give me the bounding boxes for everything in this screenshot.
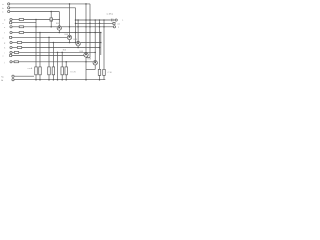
wire TR4 collector <box>85 4 87 53</box>
wire e2 right <box>80 42 100 44</box>
transistor TR2 <box>67 35 71 39</box>
terminal Pf <box>10 31 12 33</box>
wire B corner down <box>75 8 77 43</box>
wire b1 b <box>24 26 58 28</box>
junction r52 v94 <box>94 52 96 54</box>
junction v90 e1 <box>89 32 91 34</box>
wire R98 dn <box>99 75 101 79</box>
terminal out3 <box>113 26 115 28</box>
terminal Pa <box>8 3 10 5</box>
resistor Rf <box>65 67 68 75</box>
terminal Pb <box>8 7 10 9</box>
junction col49 e3 <box>48 47 50 49</box>
junction v86 bus <box>85 79 87 81</box>
terminal D8 <box>10 36 12 38</box>
wire TR5 emitter h <box>86 69 95 71</box>
wire TR2 emitter <box>69 40 71 43</box>
svg-text:u: u <box>2 56 3 58</box>
resistor Rd <box>52 67 55 75</box>
svg-text:K 170: K 170 <box>71 71 77 73</box>
resistor R6 <box>19 32 23 34</box>
wire e1 b <box>24 32 101 34</box>
junction out2 90 <box>89 23 91 25</box>
terminal Pe <box>10 26 12 28</box>
junction v90 out1 <box>89 19 91 21</box>
wire e2 b <box>22 42 76 44</box>
wire out1 c <box>113 19 115 21</box>
wire colRd up <box>52 43 54 67</box>
wire out1 <box>76 19 111 21</box>
terminal Pk <box>12 75 14 77</box>
wire colRb dn <box>39 75 41 80</box>
terminal Pi <box>10 51 12 53</box>
wire colRd dn <box>52 75 54 80</box>
junction out3 79 <box>77 26 79 28</box>
resistor Ra <box>35 67 38 75</box>
terminal D5 <box>10 22 12 24</box>
resistor RV1 <box>50 18 53 21</box>
wire v103 <box>103 20 105 69</box>
junction TR1e e1 <box>59 32 61 34</box>
junction out3 103 <box>103 26 105 28</box>
terminal Ph <box>10 46 12 48</box>
wire colRc up <box>48 37 50 67</box>
wire b1 right <box>61 26 113 28</box>
wire TR1 emitter <box>58 30 60 32</box>
resistor Re <box>61 67 64 75</box>
terminal out1 <box>115 19 117 21</box>
wire v57 jumper <box>57 52 59 79</box>
wire row4 b <box>24 19 50 21</box>
wire v100 <box>100 33 102 56</box>
wire C corner down <box>58 12 60 26</box>
wire r52 b <box>19 51 96 53</box>
wire colRb up <box>39 33 41 67</box>
resistor R8 <box>17 47 21 49</box>
junction v51 b1 <box>50 26 52 28</box>
resistor R10 <box>14 61 18 63</box>
transistor TR4 <box>84 53 88 57</box>
junction col53 e2 <box>53 42 55 44</box>
resistor R7 <box>17 42 21 44</box>
wire R103 dn <box>103 75 105 79</box>
wire TR5 collector <box>94 20 96 61</box>
terminal Pg <box>10 41 12 43</box>
wire TR3 emitter <box>77 46 79 48</box>
junction v98 out1 <box>99 19 101 21</box>
junction v57 r52 <box>57 52 59 54</box>
wire e1 a <box>12 32 19 34</box>
svg-text:u: u <box>2 23 3 25</box>
wire row C <box>10 11 60 13</box>
wire r52 a <box>12 51 14 53</box>
junction e1 end <box>100 32 102 34</box>
junction row4 C <box>59 19 60 20</box>
wire TR2 collector <box>69 4 71 35</box>
junction TR2e e2 <box>69 42 71 44</box>
capacitor C1 <box>110 19 112 22</box>
wire v98 <box>99 20 101 69</box>
wire e2 a <box>12 42 17 44</box>
junction bus Ra <box>35 79 37 81</box>
junction out1 TR3 <box>77 19 79 21</box>
wire colRf up <box>65 62 67 67</box>
junction bus Rd <box>53 79 55 81</box>
junction col66 r61 <box>65 61 67 63</box>
junction A TR2 <box>69 3 71 5</box>
junction bus Re <box>61 79 63 81</box>
junction A TR4 <box>85 3 87 5</box>
junction row4 v36 <box>35 19 37 21</box>
transistor TR3 <box>76 42 80 46</box>
junction col49 b2 <box>48 37 50 39</box>
junction out2 75 <box>75 23 77 25</box>
wire v36 upper <box>35 20 37 27</box>
wire colRa up <box>35 27 37 67</box>
wire out2 <box>76 22 113 24</box>
junction e3 end <box>99 47 101 49</box>
resistor R5 <box>19 26 23 28</box>
junction e2 end <box>100 42 102 44</box>
svg-text:ic: ic <box>2 12 3 14</box>
terminal D12 <box>10 54 12 56</box>
terminal Pc <box>8 10 10 12</box>
wire gnd bus <box>14 79 105 81</box>
junction v98 out3 <box>99 26 101 28</box>
junction v95 e1 <box>94 32 96 34</box>
svg-text:a mA: a mA <box>28 67 33 70</box>
wire row4 c <box>53 19 60 21</box>
junction v75 out1 <box>75 19 77 21</box>
wire A corner v90 <box>89 4 91 58</box>
svg-text:u: u <box>2 38 3 40</box>
wire b4 <box>12 55 84 57</box>
terminal Pj <box>10 61 12 63</box>
terminal Pl <box>12 79 14 81</box>
wire e4 h <box>86 57 90 59</box>
junction out1 TR5c <box>94 19 96 21</box>
wire row5 <box>12 22 36 24</box>
wire b2 <box>12 36 68 38</box>
junction v57 bus <box>57 79 59 81</box>
terminal D out2 <box>113 22 115 24</box>
transistor TR5 <box>93 61 97 65</box>
wire TR5 emitter v <box>94 65 96 70</box>
junction v90 out3 <box>89 26 91 28</box>
svg-text:am: am <box>117 24 120 26</box>
terminal Pd <box>10 18 12 20</box>
junction v86 out1 <box>85 19 87 21</box>
wire colRe dn <box>61 75 63 80</box>
resistor R103 <box>103 69 106 75</box>
junction bus Rb <box>39 79 41 81</box>
wire row k <box>14 75 34 77</box>
junction v75 e2 <box>75 42 77 44</box>
resistor Rb <box>39 67 42 75</box>
wire colRa dn <box>35 75 37 80</box>
junction col62 r52 <box>61 52 63 54</box>
wire rail A <box>10 3 90 5</box>
junction bus Rf <box>65 79 67 81</box>
wire row4 a <box>12 19 19 21</box>
resistor R9 <box>14 51 18 53</box>
wire colRc dn <box>48 75 50 80</box>
junction v86 out3 <box>85 26 87 28</box>
wire b1 a <box>12 26 19 28</box>
junction TR4e r61 <box>85 61 87 63</box>
wire TR4 emitter chain <box>85 57 87 80</box>
junction v36 b1 <box>35 26 37 28</box>
resistor Rc <box>48 67 51 75</box>
wire v51 upper <box>50 12 52 18</box>
transistor TR1 <box>57 26 61 30</box>
resistor R98 <box>98 69 101 75</box>
wire r61 a <box>12 61 14 63</box>
junction RV1 out <box>51 20 52 21</box>
junction C v51 <box>50 11 52 13</box>
junction v75 e1 <box>75 32 77 34</box>
junction out1 103 <box>103 19 105 21</box>
wire TR3 collector <box>77 20 79 42</box>
junction out2 98 <box>99 23 101 25</box>
wire r61 b <box>19 61 94 63</box>
wire colRe up <box>61 52 63 67</box>
junction out3 70 <box>69 26 71 28</box>
wire e3 a <box>12 47 17 49</box>
junction col40 e1 <box>39 32 41 34</box>
svg-text:ia (Ra): ia (Ra) <box>107 14 114 16</box>
junction TR3e e3 <box>77 47 79 49</box>
wire row B <box>10 7 76 9</box>
junction bus Rc <box>48 79 50 81</box>
wire colRf dn <box>65 75 67 80</box>
wire e3 b <box>22 47 100 49</box>
junction bus 98 <box>99 79 101 81</box>
wire v51 lower <box>50 21 52 27</box>
resistor R4 <box>19 19 23 21</box>
